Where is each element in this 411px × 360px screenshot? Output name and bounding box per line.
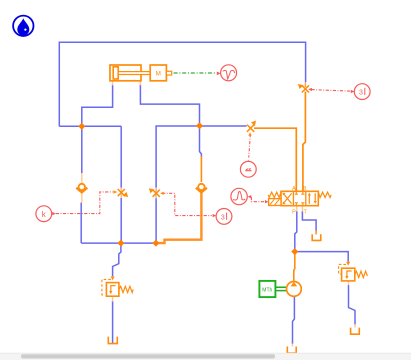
tank T2 under pump xyxy=(287,347,296,354)
dial S2 circle xyxy=(240,161,256,177)
orange stub pump tank xyxy=(292,344,294,347)
red link scope S3 to valve solenoid xyxy=(251,197,264,202)
valve right spring xyxy=(318,192,331,197)
wire cylinder right port to node B xyxy=(140,85,199,126)
orange wire pump outlet up to node xyxy=(294,252,295,282)
svg-text:B: B xyxy=(303,186,307,192)
svg-text:A: A xyxy=(292,186,296,192)
svg-text:P: P xyxy=(292,210,296,216)
pale stub cylinder right port xyxy=(139,81,141,86)
cylinder rod xyxy=(118,72,150,75)
pale stub below check valve V5 xyxy=(81,193,83,204)
relief valve V7 body xyxy=(106,283,119,297)
wire relief V7 to tank xyxy=(112,301,114,344)
orange wire above check valve V6 xyxy=(200,156,202,182)
orange stub around throttle V4 xyxy=(155,188,157,199)
throttle valve V3 xyxy=(118,189,125,196)
dial K1 circle xyxy=(36,206,52,222)
pale stub above check valve V5 xyxy=(81,173,83,184)
relief valve V8 pilot dashes xyxy=(339,264,346,274)
scope S3 circle xyxy=(231,188,247,204)
wire left throttle branch vertical xyxy=(120,126,122,243)
wire valve P port to pump node xyxy=(295,211,297,252)
fluid logo circle xyxy=(13,16,33,36)
valve proportional solenoid xyxy=(269,199,281,206)
throttle V1 adjust arrow xyxy=(298,84,304,89)
junction node D xyxy=(152,240,159,247)
orange pressurized wire from throttle V2 to valve port A xyxy=(254,128,296,191)
pump P1 triangle xyxy=(291,282,298,287)
red link V1 to dial D1 xyxy=(312,90,354,92)
junction node E pump outlet xyxy=(291,248,298,255)
wire bottom rail to relief valve V7 xyxy=(113,243,121,276)
orange stub relief V8 bottom xyxy=(348,281,350,285)
wire left mid horizontal xyxy=(59,125,121,127)
scope S1 circle xyxy=(221,65,237,81)
arrow into scope S3 xyxy=(248,195,252,198)
green motor M1 box xyxy=(259,281,275,297)
check valve V6 xyxy=(196,188,207,193)
junction node A xyxy=(78,123,85,130)
junction node B xyxy=(196,122,203,129)
scope S1 waveform xyxy=(223,70,235,79)
pale stub cylinder left port xyxy=(112,81,114,86)
arrow at dial K1 xyxy=(52,212,56,215)
svg-text:3: 3 xyxy=(221,214,225,221)
red link dial K1 to V3 xyxy=(56,192,113,214)
arrow at V2 end xyxy=(248,132,251,136)
arrow into solenoid xyxy=(265,200,269,203)
tank T3 right xyxy=(351,328,360,335)
orange stub valve T port xyxy=(301,206,303,212)
wire pump node to relief V8 xyxy=(295,252,348,262)
throttle V2 adjust arrow xyxy=(251,121,256,127)
relief valve V7 spring xyxy=(119,286,133,292)
orange stub relief V7 bottom xyxy=(112,296,114,301)
valve left spring xyxy=(268,192,281,197)
check valve V5 xyxy=(76,188,87,193)
thick orange wire check valve V6 to bottom rail node xyxy=(156,193,202,244)
orange stub right tank xyxy=(354,324,356,328)
wire valve T port to tank xyxy=(302,211,316,231)
orange stub around throttle V3 xyxy=(120,188,122,199)
arrow at V4 end xyxy=(160,192,164,195)
tank T4 valve T port xyxy=(312,234,321,240)
scrollbar thumb xyxy=(21,354,275,358)
wire main top loop (left riser, top run, right drop to throttle V1) xyxy=(59,42,305,126)
scope S3 waveform xyxy=(233,191,245,200)
relief valve V8 internal arrow xyxy=(347,271,352,277)
orange stub valve P port xyxy=(296,206,298,212)
dial Q1 circle xyxy=(216,209,232,225)
tank T1 under relief V7 xyxy=(108,337,117,344)
dial S2 glyph xyxy=(245,170,251,172)
relief valve V8 spring xyxy=(355,271,368,277)
throttle valve V1 xyxy=(302,85,309,92)
dial D1 circle xyxy=(354,84,370,100)
wire node B down toward check valve V6 xyxy=(200,126,202,158)
throttle V3 adjust arrow xyxy=(123,192,129,197)
arrow into dial D1 xyxy=(351,90,355,93)
fluid logo drop xyxy=(17,18,29,35)
relief valve V7 inlet arrow xyxy=(111,276,115,280)
wire right mid horizontal xyxy=(156,126,247,243)
wire check valve V5 below to bottom rail xyxy=(80,203,82,244)
arrow at V1 end xyxy=(308,88,312,91)
junction node C xyxy=(117,240,124,247)
svg-text:M: M xyxy=(156,70,161,77)
wire pump to tank suction xyxy=(293,297,295,345)
relief valve V8 body xyxy=(342,268,355,281)
red link V4 to dial Q1 xyxy=(162,193,212,215)
motor load box M xyxy=(150,65,166,81)
relief valve V8 inlet arrow xyxy=(346,262,350,266)
arrow into V3 xyxy=(113,190,117,194)
arrow into dial Q1 xyxy=(213,214,217,217)
throttle V4 adjust arrow xyxy=(149,188,155,193)
relief valve V7 pilot dashes xyxy=(102,279,111,295)
cylinder body xyxy=(110,65,172,81)
green displacement signal line xyxy=(174,72,216,74)
throttle valve V2 xyxy=(247,125,254,132)
valve cell2 closed ports xyxy=(295,192,305,195)
wire bottom rail left xyxy=(81,242,156,244)
arrow into dial S2 xyxy=(247,160,250,164)
orange pressurized wire from throttle V1 down to valve port B xyxy=(303,92,306,192)
motor shaft stub xyxy=(166,71,171,75)
orange stub T tank xyxy=(315,230,317,234)
directional valve U1 body xyxy=(281,191,318,205)
scrollbar track xyxy=(0,353,411,360)
wire cylinder left port to node A xyxy=(82,85,113,174)
orange stub above throttle V1 xyxy=(304,82,306,87)
valve cell dividers xyxy=(293,191,305,205)
svg-text:3: 3 xyxy=(359,90,363,97)
throttle valve V4 xyxy=(153,190,160,197)
pump P1 circle xyxy=(287,282,302,297)
motor shaft coupling xyxy=(276,287,287,290)
cylinder piston xyxy=(113,67,118,79)
svg-text:MTh: MTh xyxy=(262,288,272,294)
valve cell1 crossed arrows xyxy=(283,193,291,203)
valve cell3 arrows xyxy=(308,195,310,204)
relief valve V7 internal arrow xyxy=(111,286,116,292)
red link V2 to dial S2 xyxy=(249,134,251,158)
arrow into scope S1 xyxy=(217,72,221,76)
wire relief V8 to tank xyxy=(349,285,356,325)
